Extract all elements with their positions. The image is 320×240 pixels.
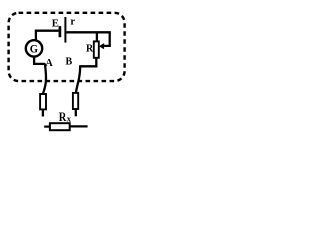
right lead of Rx [70,125,88,127]
battery E long plate [64,17,66,43]
svg-text:R: R [59,109,67,124]
unknown resistor Rx box [50,123,70,130]
node B wire down through border to right resistor [76,65,80,93]
dashed enclosure border [9,13,125,81]
svg-text:R: R [86,44,94,55]
svg-text:r: r [70,16,75,27]
wire: branch down into R top [96,32,98,41]
wire: G bottom down and right to node A [34,57,45,64]
wire: battery to rheostat loop (top and right side) [66,32,110,46]
wire stub below right resistor [75,109,77,116]
rheostat slider arrow [99,43,104,49]
node A wire down through border to left resistor [43,64,46,94]
galvanometer G [26,40,42,56]
left protection resistor box [40,94,46,109]
label Rx [59,109,72,124]
svg-text:A: A [45,58,53,69]
svg-text:G: G [30,42,38,56]
svg-text:B: B [66,56,73,67]
wire: G top up and right to battery negative plate [36,31,59,41]
svg-text:x: x [67,114,72,124]
battery E short plate [59,26,62,37]
wire: R bottom left to node B [80,58,96,67]
rheostat R box [94,41,99,57]
svg-text:E: E [52,18,59,29]
wire stub below left resistor [42,109,44,116]
left lead of Rx [44,125,50,127]
right protection resistor box [73,93,78,109]
